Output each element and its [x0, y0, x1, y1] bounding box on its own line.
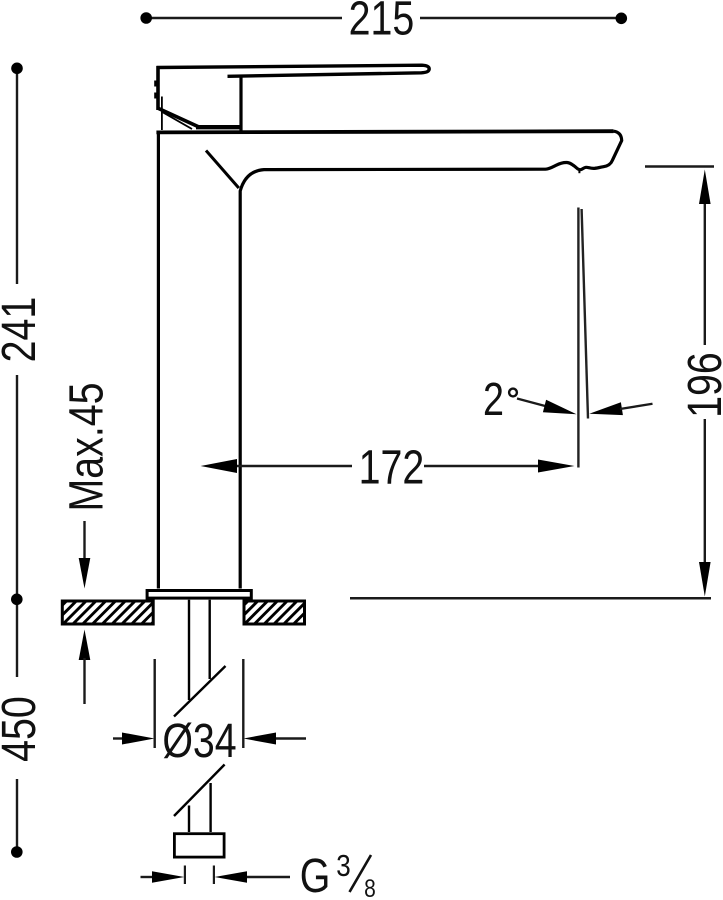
- supply pipe upper right: [208, 600, 210, 679]
- dim G3/8 left arrow: [141, 876, 154, 878]
- body left edge: [157, 132, 160, 589]
- dim 196 bottom reference line: [350, 597, 711, 600]
- dim 196 up arrowhead: [699, 170, 711, 205]
- dim 241/450 vertical line: [16, 68, 18, 851]
- dim 196 top reference line: [645, 165, 714, 168]
- handle base thick bar: [196, 125, 241, 129]
- dim dots left: [11, 63, 23, 75]
- dim 196 vertical line: [704, 200, 706, 566]
- dim 172 right arrowhead: [538, 460, 575, 473]
- supply pipe lower right: [209, 783, 211, 832]
- dim 172 line left: [237, 465, 352, 467]
- dim 196 down arrowhead: [699, 562, 711, 597]
- angle left arrowhead: [543, 400, 577, 415]
- pipe break diagonal 1: [174, 666, 226, 717]
- faucet handle lever: [157, 65, 430, 76]
- svg-text:215: 215: [349, 0, 415, 45]
- handle escutcheon left edge: [156, 66, 160, 110]
- dim 215 line: [146, 17, 621, 19]
- countertop right hatching: [244, 601, 305, 624]
- svg-text:2: 2: [483, 373, 504, 424]
- svg-text:450: 450: [0, 696, 46, 762]
- aerator tick: [578, 169, 580, 174]
- dim O34 extension line right: [242, 659, 244, 748]
- angle leader line: [517, 399, 547, 407]
- countertop left slab: [62, 601, 153, 624]
- base flange: [147, 591, 251, 599]
- svg-text:196: 196: [678, 352, 723, 418]
- handle stem: [239, 77, 242, 131]
- degree circle: [509, 389, 517, 397]
- dim G3/8 extension line left: [184, 866, 186, 885]
- dim G3/8 right arrow: [215, 871, 248, 882]
- escutcheon slant face: [158, 108, 199, 127]
- svg-text:172: 172: [359, 441, 425, 495]
- angle right arrowhead: [589, 402, 623, 415]
- countertop right slab: [244, 601, 305, 624]
- dim 172 left arrowhead: [201, 459, 237, 473]
- escutcheon nub 2: [154, 93, 157, 99]
- svg-text:241: 241: [0, 297, 46, 363]
- svg-text:Max.45: Max.45: [60, 382, 114, 511]
- dim O34 left arrow: [113, 737, 126, 739]
- fraction slash: [350, 855, 372, 892]
- dim 172 line right: [424, 465, 540, 467]
- dim 215 end dots: [140, 12, 152, 24]
- svg-text:3: 3: [336, 849, 350, 884]
- svg-text:G: G: [300, 849, 331, 900]
- svg-text:Ø34: Ø34: [162, 714, 236, 768]
- dim G3/8 extension line right: [213, 866, 215, 885]
- escutcheon nub 1: [154, 81, 157, 87]
- angle right line: [620, 404, 653, 409]
- dim O34 right arrow: [244, 733, 277, 745]
- Max.45 down arrow: [83, 521, 85, 562]
- G3/8 coupler: [174, 834, 224, 857]
- spout end + underside + fillet + body right edge: [240, 131, 622, 588]
- body/spout top edge: [156, 131, 613, 132]
- escutcheon inner vertical: [161, 97, 163, 131]
- body shoulder diagonal: [206, 151, 239, 189]
- supply pipe lower left: [188, 806, 190, 833]
- countertop left hatching: [63, 601, 154, 624]
- dim O34 extension line left: [153, 659, 155, 748]
- water stream right line: [582, 209, 588, 419]
- water stream left line: [577, 208, 579, 468]
- pipe break diagonal 2: [174, 765, 225, 817]
- escutcheon inner diagonal: [162, 112, 192, 129]
- Max.45 up arrow: [79, 630, 91, 661]
- svg-text:8: 8: [364, 874, 376, 900]
- supply pipe upper left: [188, 600, 190, 700]
